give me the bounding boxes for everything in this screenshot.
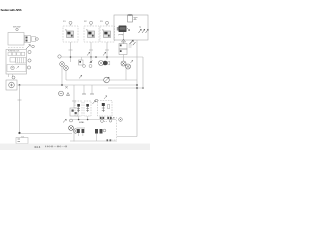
- wire to right: [109, 79, 137, 81]
- solenoid valve SV2 box: [84, 101, 91, 116]
- pin marks bottom right: [107, 139, 109, 141]
- arrow marker: [26, 45, 30, 49]
- junction dots bottom bus: [78, 119, 80, 121]
- fuse F2: [12, 52, 16, 55]
- label circle left bus: [58, 55, 61, 58]
- wire stub 1: [8, 74, 10, 77]
- wire SV1 down: [78, 116, 80, 120]
- arrow between valves: [93, 101, 96, 104]
- secondary bus: [66, 79, 104, 81]
- stub R3: [106, 24, 108, 26]
- arrow mark: [63, 119, 66, 122]
- bottom bus wire: [70, 119, 116, 121]
- relay R1 box: [63, 21, 78, 42]
- contact icon S1: [79, 57, 86, 67]
- arrow triangle: [67, 93, 70, 96]
- injector arrows: [139, 29, 149, 33]
- wire R1 down: [70, 42, 72, 62]
- connector C1: [25, 36, 36, 43]
- contact icon S2: [89, 57, 93, 68]
- connector tick left vertical: [18, 99, 22, 101]
- connector tick R3 wire: [105, 49, 109, 51]
- label circle 1: [28, 50, 31, 53]
- fuse F4: [21, 52, 25, 55]
- wire W1 down: [61, 66, 63, 85]
- wire R3 down: [106, 42, 108, 60]
- horn symbol: [59, 91, 64, 96]
- ECU right edge: [142, 57, 144, 88]
- capacitor C1: [128, 15, 133, 22]
- breaker symbol: [11, 66, 15, 70]
- lamp cluster bottom: [69, 126, 74, 131]
- bottom rail: [70, 140, 117, 142]
- switch label ticks: [129, 44, 133, 46]
- lamp W2: [64, 66, 69, 71]
- stub R1: [70, 24, 72, 26]
- motor M1 box: [6, 80, 17, 90]
- lamp L1: [121, 61, 126, 66]
- arrow mark bus 1: [87, 52, 90, 55]
- ECU bus top: [62, 56, 144, 58]
- bus icon circle: [101, 120, 104, 123]
- arrow mark bus 2: [103, 52, 106, 55]
- svg-text:4WAL: 4WAL: [79, 121, 85, 124]
- stub R2: [90, 24, 92, 26]
- breaker box inner: [7, 65, 26, 72]
- lamp and valve icon S3: [95, 56, 110, 65]
- solenoid valve SV1 box: [75, 101, 82, 116]
- wire W2 down: [65, 70, 67, 80]
- label circle motor: [12, 76, 15, 79]
- svg-text:04 4: 04 4: [35, 145, 41, 149]
- fuse box upper: [8, 33, 24, 46]
- wire vertical left: [19, 85, 21, 133]
- wire down from switch: [123, 55, 125, 62]
- footer bar: [0, 144, 150, 151]
- wire dashed: [8, 47, 24, 49]
- junction dots bus: [70, 56, 72, 58]
- node A terminal: [16, 28, 18, 30]
- wire G down: [96, 134, 98, 142]
- junction dot ECU corner: [142, 87, 144, 89]
- cluster G pair: [95, 129, 106, 134]
- lamp arrows: [131, 60, 133, 63]
- middle junction cluster: [61, 84, 63, 86]
- diode box: [16, 138, 28, 144]
- svg-text:4 44 44 — 444 — 44: 4 44 44 — 444 — 44: [45, 146, 68, 149]
- wire horizontal lower: [20, 133, 73, 135]
- vertical wire right: [136, 40, 138, 137]
- ground stub 2: [91, 85, 93, 94]
- flasher symbol: [104, 77, 110, 83]
- relay R2 box: [84, 21, 99, 42]
- relay coil inner: [10, 58, 16, 63]
- arrow mark above bus: [79, 75, 82, 78]
- terminal circle: [119, 118, 123, 122]
- connector tick R1 wire: [69, 49, 73, 51]
- capacitor label ticks: [134, 17, 138, 19]
- connector box mid: [70, 108, 78, 116]
- junction dot: [19, 84, 21, 86]
- wire lamps down: [125, 69, 127, 80]
- bus icon right cluster: [109, 120, 112, 123]
- resistor hatch: [16, 58, 27, 64]
- motor M1 symbol: [9, 82, 15, 88]
- junction dots right: [136, 84, 138, 86]
- relay R3 box: [100, 21, 115, 42]
- connector tick mid vertical: [72, 100, 76, 102]
- node circle: [70, 119, 73, 122]
- wire SV2 down: [87, 116, 89, 120]
- svg-text:Sedan with ABS: Sedan with ABS: [1, 8, 22, 12]
- junction dot lower: [18, 132, 20, 134]
- pressure switch box lower: [119, 49, 127, 55]
- wire pump down: [123, 32, 125, 44]
- wire mid vertical: [73, 85, 75, 108]
- wire R2 down: [90, 42, 92, 60]
- solenoid valve SV3 box: [98, 101, 113, 117]
- label circle 2: [28, 59, 31, 62]
- pressure switch box upper: [119, 44, 127, 50]
- pump motor blob: [119, 26, 127, 33]
- fuse F3: [17, 52, 21, 55]
- connector tick R2 wire: [89, 49, 93, 51]
- wire corner bottom right: [117, 136, 137, 138]
- lamp L2: [126, 64, 131, 69]
- pin stubs under SV3: [100, 117, 102, 119]
- cluster F pair: [77, 128, 86, 136]
- label circle 3: [27, 66, 30, 69]
- label circle valves: [95, 99, 98, 102]
- node B terminal: [36, 38, 39, 41]
- node C terminal: [32, 45, 35, 48]
- wire down to bottom bus: [73, 133, 75, 142]
- lamp W1: [60, 62, 65, 67]
- wire stub 2: [12, 74, 14, 77]
- ECU bottom edge: [108, 87, 143, 89]
- main bus wire: [17, 84, 137, 86]
- ground stub 1: [83, 85, 85, 94]
- dashed box right bottom: [116, 117, 118, 140]
- junction block J/B: [6, 50, 27, 75]
- engine unit box: [114, 15, 148, 40]
- check valve arrows: [130, 40, 136, 45]
- arrow mark below ECU: [104, 96, 107, 99]
